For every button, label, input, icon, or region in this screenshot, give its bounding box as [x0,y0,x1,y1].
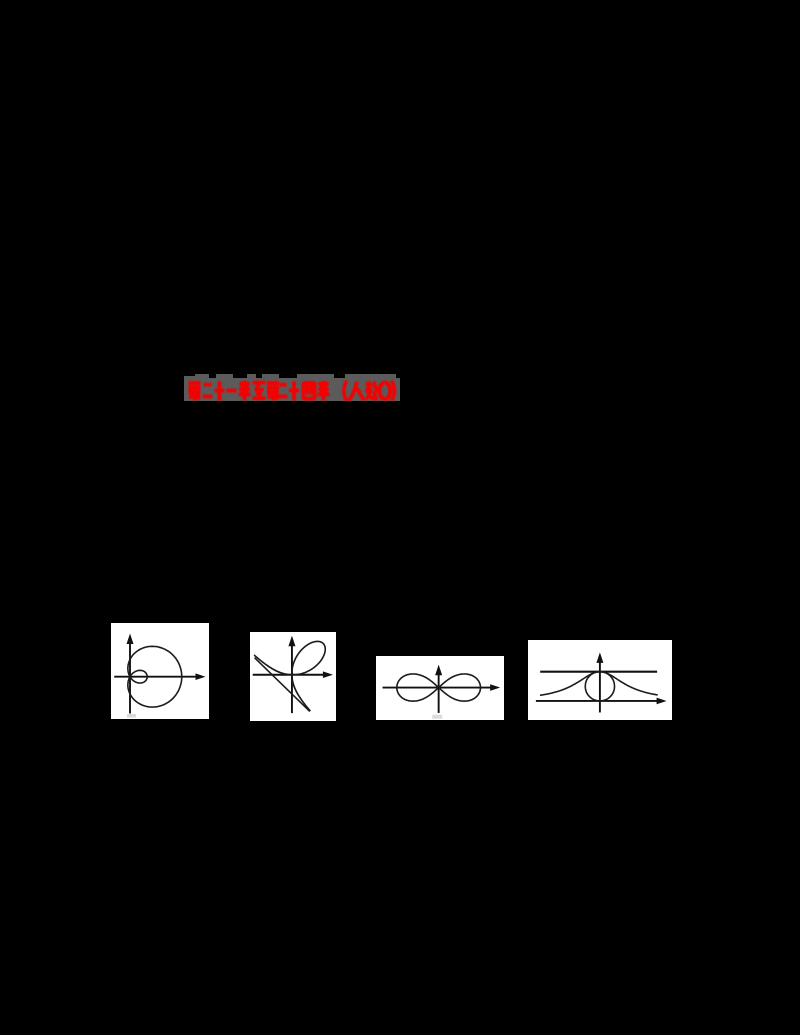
asymptote line x+y+a=0 [254,658,309,712]
x axis arrowhead [490,684,500,691]
x axis [382,686,491,688]
title highlight band [184,378,400,401]
x axis arrowhead [196,673,206,680]
folium branch Q4 [291,675,309,711]
lemniscate right loop [438,674,480,701]
lemniscate left loop [396,674,438,701]
x axis [536,700,658,702]
figure box 2: folium of Descartes [250,632,337,721]
y axis arrowhead [127,634,134,645]
faint smudge [127,714,136,718]
x axis arrowhead [322,671,332,678]
y axis [129,643,131,714]
y axis arrowhead [596,652,603,663]
circle of witch construction [585,671,614,700]
top tangent line y=2a [540,670,657,672]
limacon curve r=b(1+2cos t) [128,646,182,707]
faint smudge [432,715,442,719]
folium branch Q2 [254,655,292,675]
x axis [252,674,323,676]
folium loop [291,641,324,674]
title highlight raised segment 2 [195,374,209,379]
title highlight raised segment 4 [247,374,257,379]
witch curve [540,671,658,695]
y axis [290,645,292,713]
title highlight raised segment 6 [297,374,335,379]
title highlight raised segment 7 [345,374,396,379]
y axis [599,662,601,713]
figure box 3: lemniscate [376,656,505,721]
x axis arrowhead [657,697,667,704]
y axis arrowhead [435,664,442,675]
figure box 4: witch of Agnesi [528,640,672,720]
y axis [437,674,439,713]
title highlight raised segment 3 [216,374,233,379]
figure box 1: limacon with inner loop [111,623,209,719]
title highlight raised segment 1 [184,376,195,380]
title highlight raised segment 5 [262,374,279,379]
y axis arrowhead [288,636,295,647]
x axis [114,676,196,678]
